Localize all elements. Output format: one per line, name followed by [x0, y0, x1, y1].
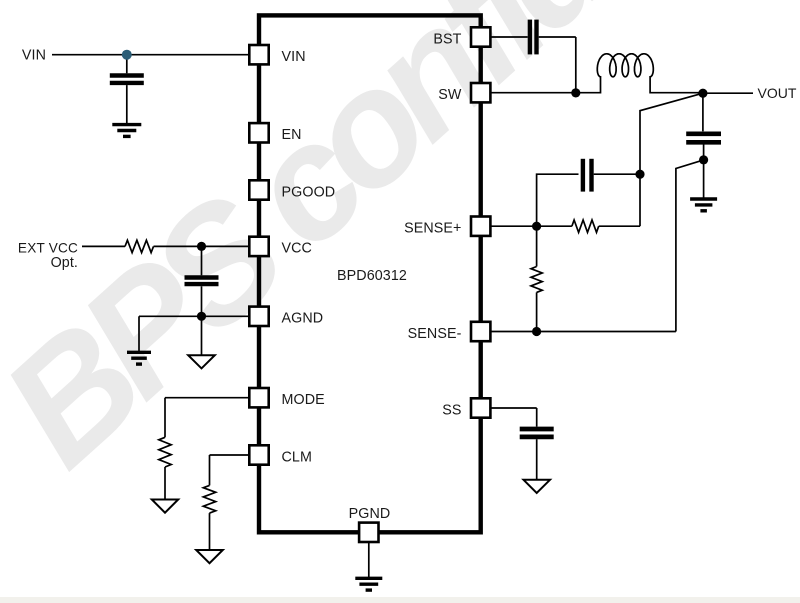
svg-text:PGND: PGND: [349, 506, 391, 522]
svg-text:VIN: VIN: [22, 48, 46, 64]
svg-text:SS: SS: [442, 402, 461, 418]
svg-text:SW: SW: [438, 87, 462, 103]
svg-text:MODE: MODE: [282, 392, 325, 408]
svg-text:EN: EN: [282, 127, 302, 143]
svg-text:BPD60312: BPD60312: [337, 268, 407, 284]
svg-text:VOUT: VOUT: [758, 85, 797, 101]
svg-text:SENSE-: SENSE-: [408, 326, 462, 342]
svg-text:VCC: VCC: [282, 241, 313, 257]
svg-text:AGND: AGND: [282, 311, 324, 327]
svg-text:BST: BST: [433, 31, 461, 47]
svg-text:VIN: VIN: [282, 49, 306, 65]
svg-text:Opt.: Opt.: [51, 255, 78, 271]
svg-text:PGOOD: PGOOD: [282, 184, 336, 200]
svg-text:CLM: CLM: [282, 449, 313, 465]
svg-text:EXT VCC: EXT VCC: [18, 241, 78, 256]
svg-text:SENSE+: SENSE+: [404, 221, 461, 237]
